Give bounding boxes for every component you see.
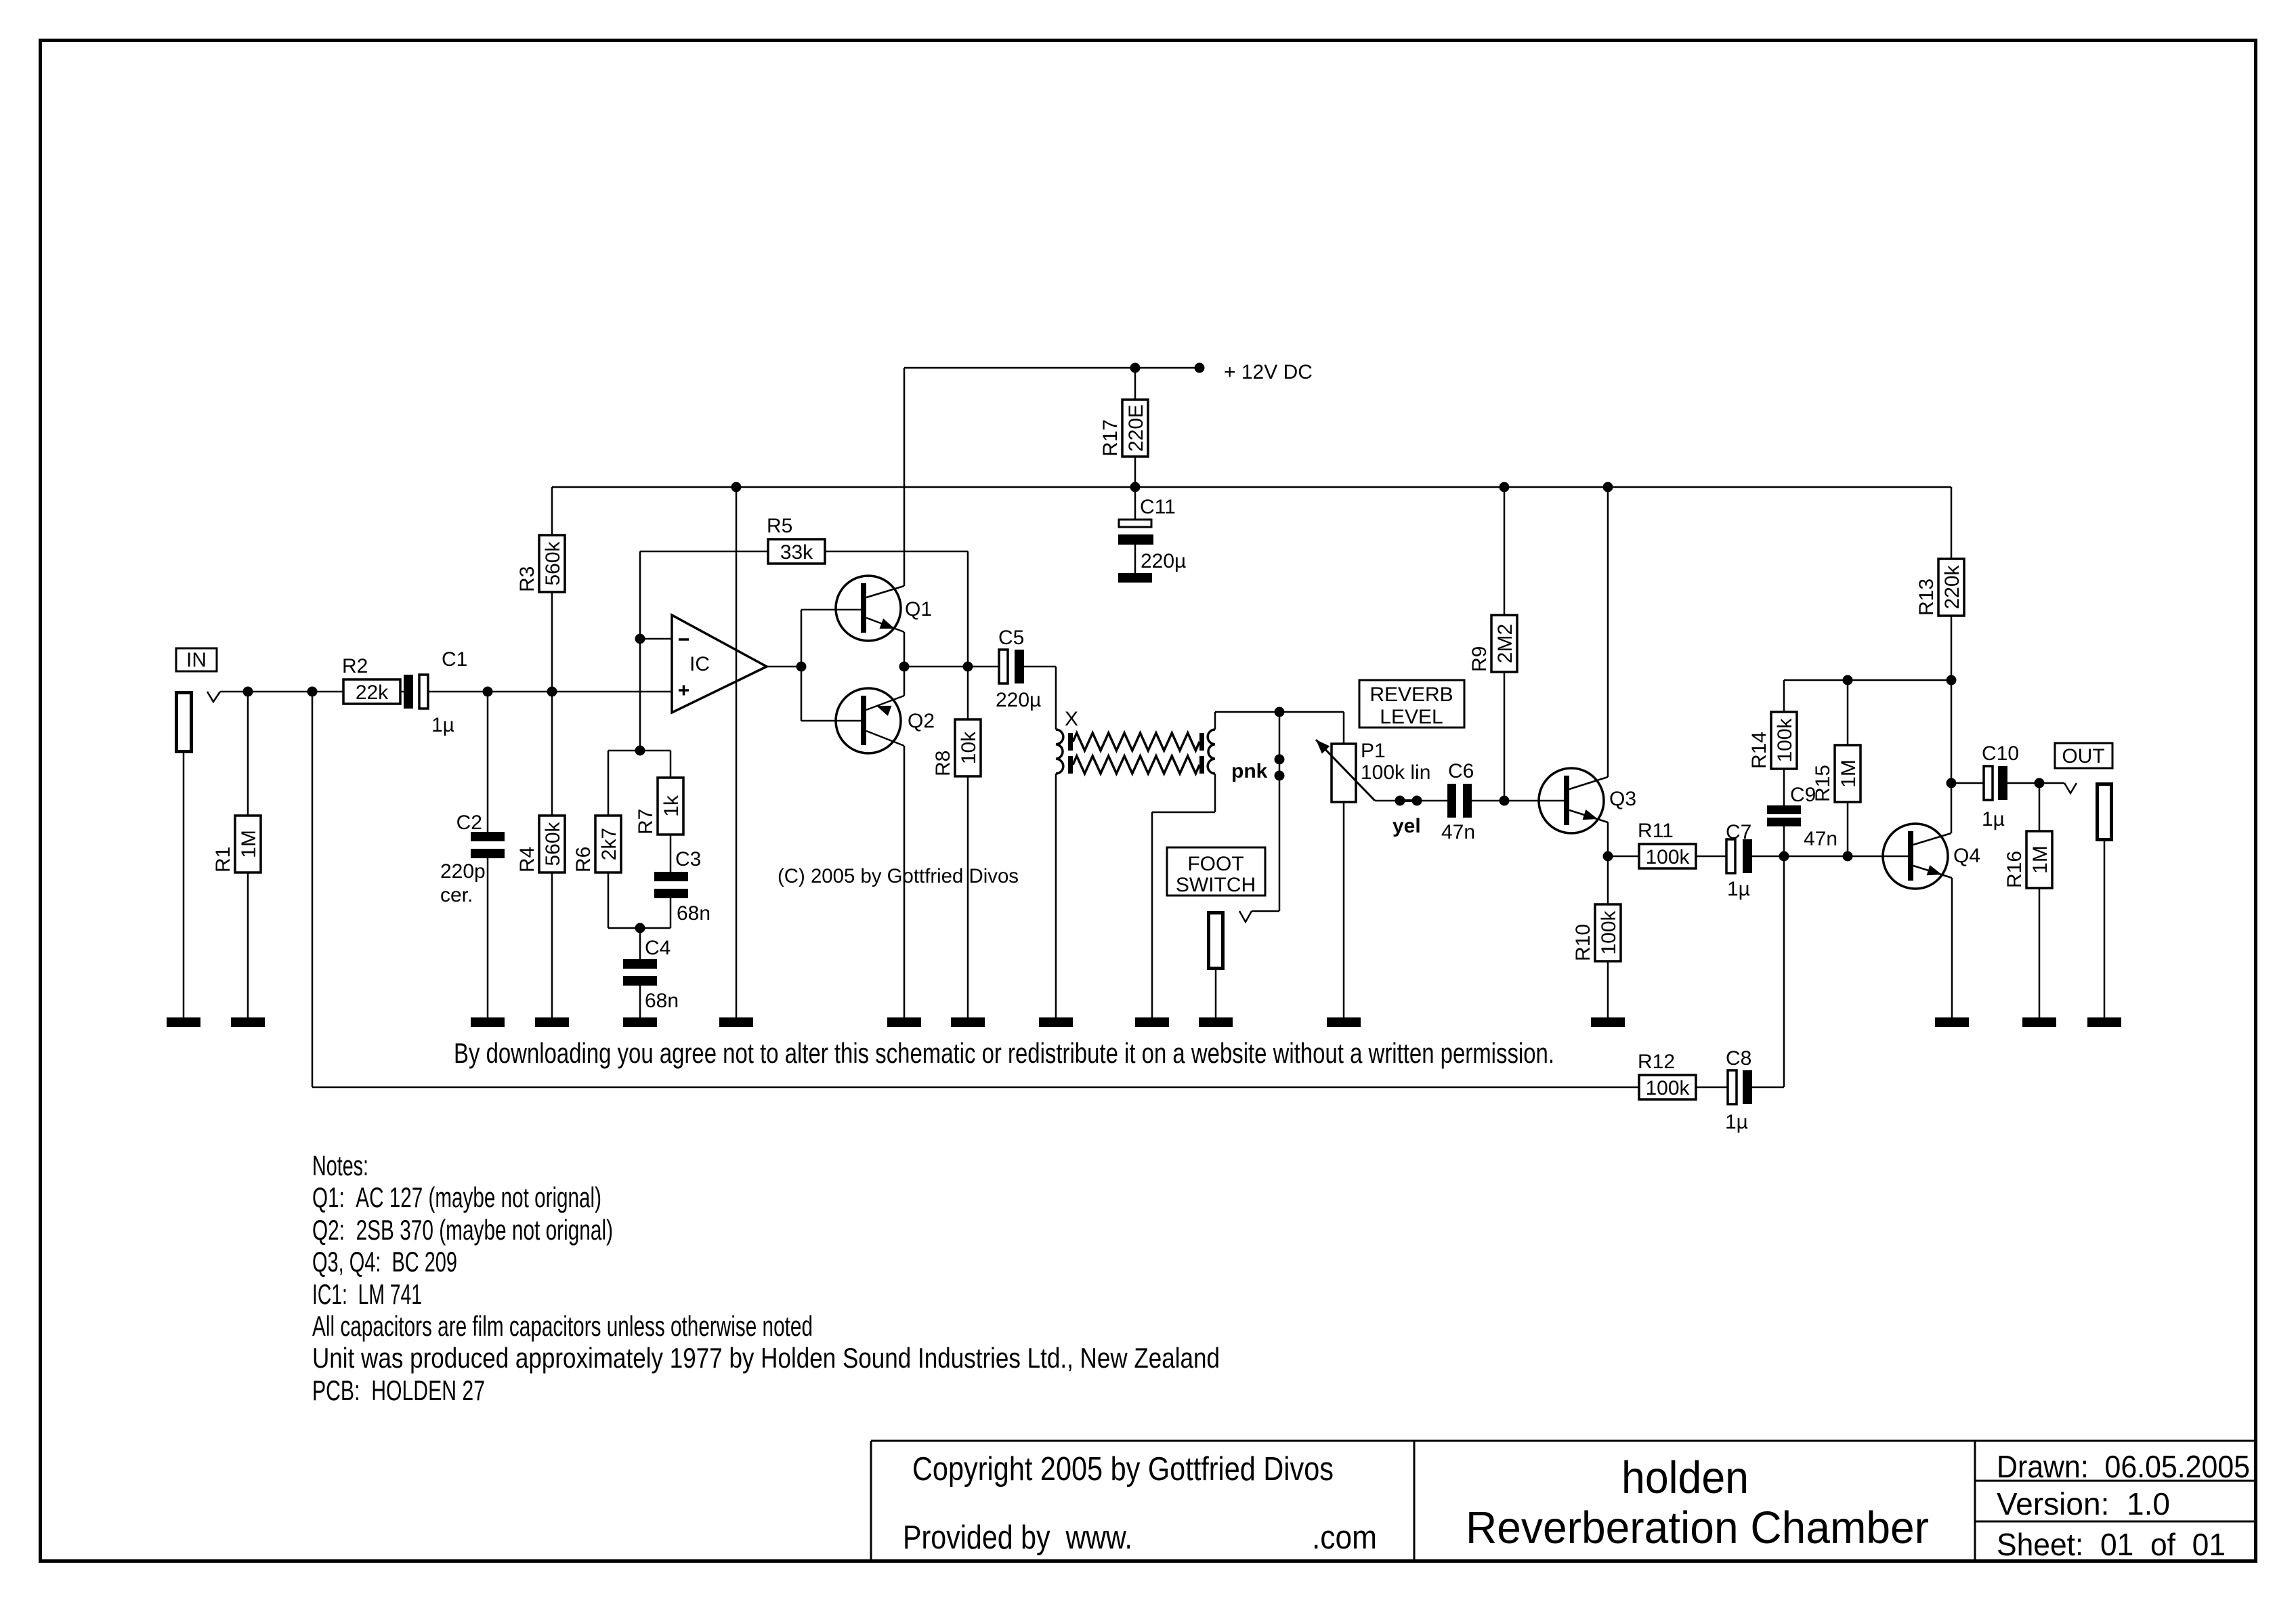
svg-text:1k: 1k [660, 795, 683, 817]
svg-text:Q2: 2SB 370 (maybe not origna: Q2: 2SB 370 (maybe not orignal) [312, 1214, 613, 1246]
svg-text:100k: 100k [1598, 910, 1620, 954]
svg-text:R1: R1 [212, 847, 234, 872]
svg-text:IN: IN [186, 649, 207, 671]
svg-text:R11: R11 [1638, 820, 1674, 842]
svg-text:OUT: OUT [2062, 745, 2104, 767]
svg-text:R7: R7 [635, 809, 657, 835]
svg-text:Copyright 2005 by Gottfried Di: Copyright 2005 by Gottfried Divos [912, 1451, 1334, 1488]
svg-text:560k: 560k [542, 541, 564, 585]
svg-text:C9: C9 [1790, 784, 1816, 806]
svg-text:1µ: 1µ [1725, 1111, 1748, 1133]
svg-text:R4: R4 [516, 847, 538, 872]
svg-text:1M: 1M [1837, 759, 1860, 788]
svg-text:X: X [1065, 708, 1078, 730]
svg-text:100k: 100k [1774, 717, 1796, 762]
svg-text:.com: .com [1312, 1519, 1377, 1556]
svg-text:By downloading you agree not t: By downloading you agree not to alter th… [454, 1037, 1554, 1069]
svg-text:68n: 68n [677, 902, 710, 925]
svg-text:Q3, Q4: BC 209: Q3, Q4: BC 209 [312, 1246, 457, 1278]
svg-text:Q2: Q2 [908, 710, 935, 732]
svg-text:100k: 100k [1645, 846, 1690, 868]
svg-text:Provided by www.: Provided by www. [903, 1519, 1132, 1556]
svg-text:R16: R16 [2003, 851, 2026, 888]
svg-text:560k: 560k [542, 821, 564, 866]
svg-text:220p: 220p [440, 860, 486, 883]
svg-text:Reverberation Chamber: Reverberation Chamber [1466, 1502, 1929, 1553]
svg-text:22k: 22k [356, 681, 389, 704]
svg-text:R12: R12 [1638, 1051, 1675, 1073]
svg-text:R10: R10 [1572, 924, 1594, 961]
svg-text:C6: C6 [1448, 760, 1474, 782]
svg-text:P1: P1 [1361, 740, 1386, 762]
svg-text:cer.: cer. [440, 884, 473, 906]
svg-text:1µ: 1µ [1727, 878, 1750, 900]
svg-text:+ 12V DC: + 12V DC [1224, 361, 1313, 383]
svg-text:47n: 47n [1441, 821, 1475, 843]
svg-text:IC: IC [689, 653, 710, 675]
svg-text:All capacitors are film capaci: All capacitors are film capacitors unles… [312, 1310, 813, 1342]
svg-text:C2: C2 [456, 812, 482, 834]
svg-text:1M: 1M [238, 830, 260, 858]
svg-text:C3: C3 [675, 848, 701, 870]
svg-text:(C) 2005 by Gottfried Divos: (C) 2005 by Gottfried Divos [778, 865, 1019, 887]
svg-text:Sheet: 01 of 01: Sheet: 01 of 01 [1997, 1527, 2226, 1562]
svg-text:C7: C7 [1726, 821, 1751, 843]
svg-text:10k: 10k [958, 731, 980, 764]
svg-text:2k7: 2k7 [598, 828, 620, 860]
svg-text:220E: 220E [1125, 404, 1147, 452]
svg-text:SWITCH: SWITCH [1176, 874, 1256, 896]
svg-text:2M2: 2M2 [1494, 624, 1516, 663]
svg-text:Unit was produced approximatel: Unit was produced approximately 1977 by … [312, 1342, 1220, 1374]
svg-text:100k lin: 100k lin [1361, 761, 1430, 784]
svg-text:Q3: Q3 [1609, 788, 1636, 810]
svg-text:R3: R3 [516, 566, 538, 592]
svg-text:68n: 68n [645, 990, 679, 1012]
svg-text:C10: C10 [1982, 742, 2019, 765]
svg-text:PCB: HOLDEN 27: PCB: HOLDEN 27 [312, 1374, 485, 1406]
svg-text:pnk: pnk [1231, 760, 1268, 782]
svg-text:Q1: AC 127 (maybe not orignal: Q1: AC 127 (maybe not orignal) [312, 1181, 601, 1213]
svg-text:R8: R8 [932, 751, 954, 776]
svg-text:yel: yel [1393, 815, 1421, 837]
svg-text:Notes:: Notes: [312, 1150, 368, 1181]
svg-text:220µ: 220µ [1141, 550, 1186, 572]
svg-text:R17: R17 [1099, 419, 1122, 457]
svg-text:R14: R14 [1748, 732, 1770, 769]
svg-text:R2: R2 [342, 655, 368, 677]
svg-text:IC1: LM 741: IC1: LM 741 [312, 1278, 422, 1310]
svg-text:220k: 220k [1941, 564, 1963, 609]
svg-text:1M: 1M [2029, 845, 2051, 874]
svg-text:R13: R13 [1915, 578, 1938, 616]
svg-text:C4: C4 [645, 937, 671, 959]
svg-text:47n: 47n [1804, 828, 1837, 850]
svg-text:C11: C11 [1140, 496, 1176, 518]
svg-text:Version: 1.0: Version: 1.0 [1997, 1486, 2170, 1521]
svg-text:33k: 33k [780, 541, 813, 564]
svg-text:1µ: 1µ [1982, 808, 2005, 830]
svg-text:220µ: 220µ [996, 689, 1041, 711]
svg-text:R6: R6 [572, 847, 595, 872]
svg-text:holden: holden [1621, 1452, 1749, 1503]
svg-text:C8: C8 [1726, 1047, 1751, 1070]
svg-text:100k: 100k [1645, 1077, 1690, 1099]
svg-text:1µ: 1µ [431, 714, 454, 736]
svg-text:C5: C5 [998, 627, 1024, 649]
svg-text:REVERB: REVERB [1369, 683, 1453, 706]
svg-text:Drawn: 06.05.2005: Drawn: 06.05.2005 [1997, 1449, 2250, 1484]
svg-text:FOOT: FOOT [1187, 853, 1243, 875]
svg-text:C1: C1 [442, 648, 467, 671]
svg-text:R9: R9 [1468, 646, 1491, 672]
svg-text:Q1: Q1 [905, 598, 932, 620]
svg-text:LEVEL: LEVEL [1380, 706, 1443, 728]
svg-text:Q4: Q4 [1953, 845, 1980, 867]
svg-text:R5: R5 [767, 515, 792, 537]
